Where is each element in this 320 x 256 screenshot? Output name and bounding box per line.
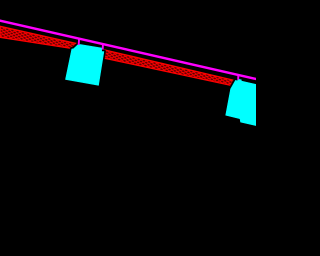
box 1 black halo — [66, 44, 104, 85]
magenta trajectory line — [0, 20, 257, 79]
connector box2 — [237, 75, 239, 79]
connector box1 left — [78, 39, 80, 45]
red hatched band segment 1 (left, tapering) — [0, 26, 77, 49]
red hatched band segment 2 (middle) — [103, 50, 239, 88]
box 2 cyan body — [226, 79, 256, 126]
box 1 cyan body — [66, 44, 104, 85]
connector box1 right — [102, 45, 104, 50]
box 2 black halo — [226, 79, 256, 126]
